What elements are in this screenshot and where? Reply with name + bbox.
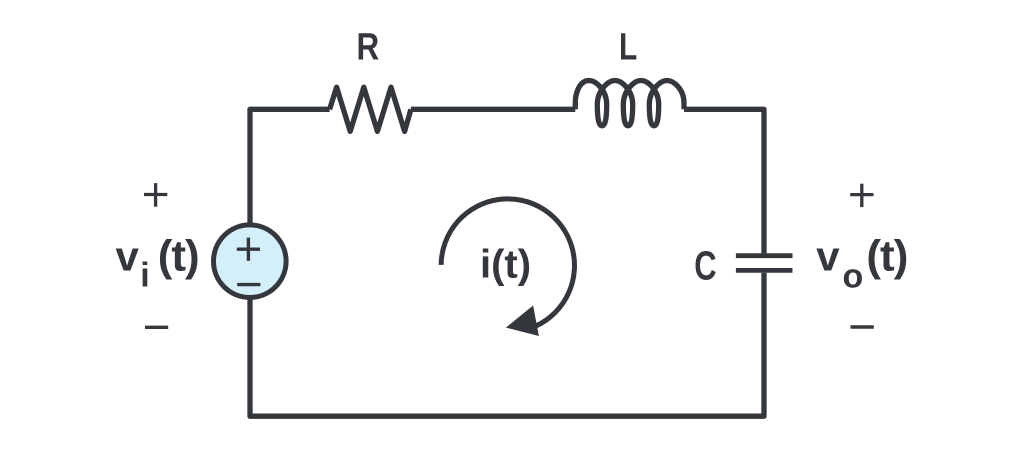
svg-text:v: v xyxy=(116,233,140,280)
plus sign inside source xyxy=(237,238,260,261)
capacitor C plates xyxy=(736,253,793,258)
label vi(t) xyxy=(116,232,199,295)
svg-text:R: R xyxy=(356,25,379,68)
minus sign inside source xyxy=(237,283,260,286)
resistor R xyxy=(330,87,411,131)
voltage source circle xyxy=(214,225,287,298)
svg-text:(t): (t) xyxy=(866,232,907,281)
wire capacitor to bottom, bottom run, left vertical to source xyxy=(250,273,764,417)
svg-text:i: i xyxy=(140,257,149,295)
wire top-left: left vertical + top run to resistor xyxy=(250,109,330,224)
label R xyxy=(356,25,379,68)
svg-text:o: o xyxy=(843,258,864,296)
plus sign left (vi polarity) xyxy=(144,183,167,207)
arrowhead of current loop xyxy=(506,306,539,337)
wire L to capacitor xyxy=(684,109,764,253)
minus sign right (vo polarity) xyxy=(851,325,874,328)
svg-text:C: C xyxy=(694,242,716,288)
svg-text:i(t): i(t) xyxy=(480,243,531,287)
inductor L xyxy=(575,81,684,126)
minus sign left (vi polarity) xyxy=(145,326,168,329)
label L xyxy=(619,26,637,68)
label C xyxy=(694,242,716,288)
svg-text:(t): (t) xyxy=(158,232,199,281)
svg-text:v: v xyxy=(816,233,840,280)
current loop arc i(t) xyxy=(441,199,574,326)
svg-text:L: L xyxy=(619,26,637,68)
label vo(t) xyxy=(816,232,907,296)
plus sign right (vo polarity) xyxy=(850,184,873,207)
wire between R and L xyxy=(411,107,575,112)
